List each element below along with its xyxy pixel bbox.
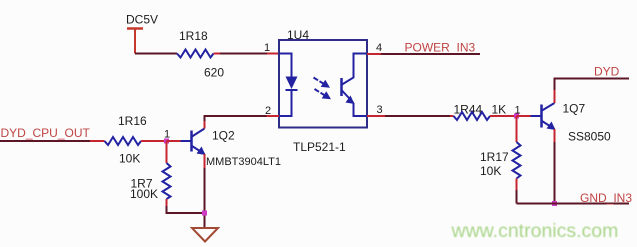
svg-text:4: 4 bbox=[376, 42, 382, 54]
phototransistor inside optocoupler bbox=[342, 54, 367, 117]
net label GND_IN3 bbox=[580, 191, 632, 205]
wire junction to Q2 base bbox=[167, 140, 181, 142]
svg-text:1: 1 bbox=[264, 42, 270, 54]
value label TLP521-1 bbox=[293, 140, 346, 154]
svg-text:MMBT3904LT1: MMBT3904LT1 bbox=[206, 156, 281, 168]
svg-text:3: 3 bbox=[377, 104, 383, 116]
net label DYD_CPU_OUT bbox=[0, 126, 105, 141]
wire Q2 emitter down to ground bbox=[204, 154, 206, 228]
pin number 1 (Q2 base) bbox=[164, 129, 170, 141]
pin number 1 (Q7 base) bbox=[515, 105, 521, 117]
transistor Q7 (1Q7 SS8050) bbox=[531, 102, 612, 144]
resistor R17 (1R17, 10K) bbox=[480, 116, 521, 204]
svg-text:1Q2: 1Q2 bbox=[212, 129, 235, 143]
svg-text:DYD_CPU_OUT: DYD_CPU_OUT bbox=[1, 126, 91, 140]
svg-text:1R16: 1R16 bbox=[118, 114, 147, 128]
node junction R16/R7/Q2 bbox=[164, 139, 169, 144]
net label POWER_IN3 bbox=[367, 41, 480, 55]
pin number 1 (opto) bbox=[264, 42, 270, 54]
pin number 3 (opto) bbox=[377, 104, 383, 116]
resistor R7 (1R7, 100K) bbox=[130, 141, 171, 206]
wire GND rail bbox=[517, 203, 630, 205]
svg-text:POWER_IN3: POWER_IN3 bbox=[405, 41, 476, 55]
pin number 2 (opto) bbox=[265, 105, 271, 117]
node junction R7/emitter bbox=[202, 211, 207, 216]
svg-text:620: 620 bbox=[204, 66, 224, 80]
svg-text:1R17: 1R17 bbox=[480, 150, 509, 164]
net label DYD bbox=[594, 65, 620, 79]
wire R7 to emitter junction bbox=[167, 206, 205, 213]
resistor R44 (1R44, 1K) bbox=[450, 103, 517, 121]
svg-text:www.cntronics.com: www.cntronics.com bbox=[451, 220, 619, 242]
wire Q2 collector to opto pin2 bbox=[205, 116, 280, 129]
LED inside optocoupler bbox=[280, 54, 298, 117]
svg-text:10K: 10K bbox=[119, 152, 140, 166]
light arrows bbox=[314, 78, 332, 100]
svg-text:1K: 1K bbox=[492, 103, 507, 117]
svg-text:1Q7: 1Q7 bbox=[563, 102, 586, 116]
wire opto pin3 to R44 bbox=[367, 115, 450, 117]
svg-text:SS8050: SS8050 bbox=[568, 130, 611, 144]
svg-text:GND_IN3: GND_IN3 bbox=[580, 191, 632, 205]
resistor R18 (1R18, 620) bbox=[177, 29, 224, 80]
pin number 4 (opto) bbox=[376, 42, 382, 54]
svg-text:DYD: DYD bbox=[594, 65, 620, 79]
wire R18 to opto pin1 bbox=[220, 53, 279, 55]
op-amp U1: optocoupler 1U4 box bbox=[279, 28, 367, 128]
wire Q7 collector to DYD bbox=[555, 79, 630, 104]
resistor R16 (1R16, 10K) bbox=[105, 114, 167, 166]
wire Q7 emitter down bbox=[554, 129, 556, 204]
wire junction to Q7 base bbox=[517, 115, 531, 117]
svg-text:10K: 10K bbox=[480, 164, 501, 178]
svg-text:1R18: 1R18 bbox=[179, 29, 208, 43]
svg-text:1R44: 1R44 bbox=[454, 103, 483, 117]
node junction R44/R17/Q7 bbox=[514, 114, 519, 119]
watermark www.cntronics.com bbox=[451, 220, 619, 242]
power port DC5V bbox=[126, 13, 158, 54]
ground bbox=[192, 228, 218, 242]
transistor Q2 (1Q2 MMBT3904LT1) bbox=[181, 129, 282, 169]
node junction emitter/GND rail bbox=[552, 201, 557, 206]
svg-text:1U4: 1U4 bbox=[287, 28, 309, 42]
svg-text:DC5V: DC5V bbox=[126, 13, 158, 27]
wire DC5V to R18 bbox=[135, 53, 177, 55]
svg-text:TLP521-1: TLP521-1 bbox=[293, 140, 346, 154]
svg-text:100K: 100K bbox=[130, 187, 158, 201]
